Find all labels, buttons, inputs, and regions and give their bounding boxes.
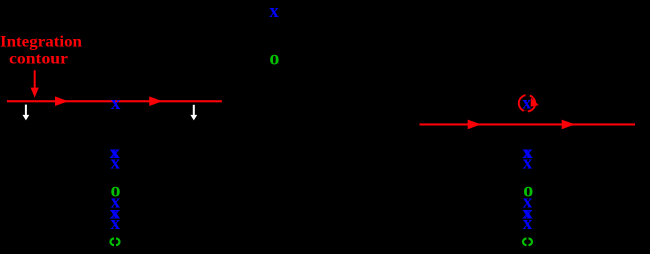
right column of poles and zeros	[522, 142, 533, 245]
svg-text:x: x	[111, 213, 121, 234]
svg-text:x: x	[111, 93, 121, 114]
svg-text:x: x	[523, 153, 533, 174]
label: Integration contour	[0, 33, 82, 67]
svg-text:contour: contour	[9, 50, 68, 67]
right contour arrowhead 1	[468, 120, 481, 130]
svg-text:o: o	[269, 48, 279, 70]
left column of poles and zeros	[109, 142, 120, 245]
gap at top of small circle	[526, 94, 530, 97]
left contour arrowhead 1	[55, 96, 68, 106]
arrowhead on small circle	[531, 98, 539, 107]
right contour arrowhead 2	[562, 120, 575, 130]
gap at bottom of small circle	[524, 111, 528, 114]
right contour line	[420, 123, 636, 125]
left contour arrowhead 2	[149, 96, 162, 106]
svg-text:Integration: Integration	[0, 33, 82, 50]
double zero o	[110, 239, 114, 246]
white arrow 1 below left contour	[23, 105, 30, 121]
svg-text:x: x	[269, 1, 279, 22]
left contour line	[7, 100, 222, 102]
pointer arrow from label to contour	[31, 70, 39, 97]
svg-text:x: x	[111, 153, 121, 174]
svg-text:x: x	[522, 93, 531, 113]
double zero o	[523, 239, 527, 246]
small circle contour around pole	[519, 95, 535, 111]
svg-text:x: x	[523, 213, 533, 234]
white arrow 2 below left contour	[190, 105, 197, 121]
